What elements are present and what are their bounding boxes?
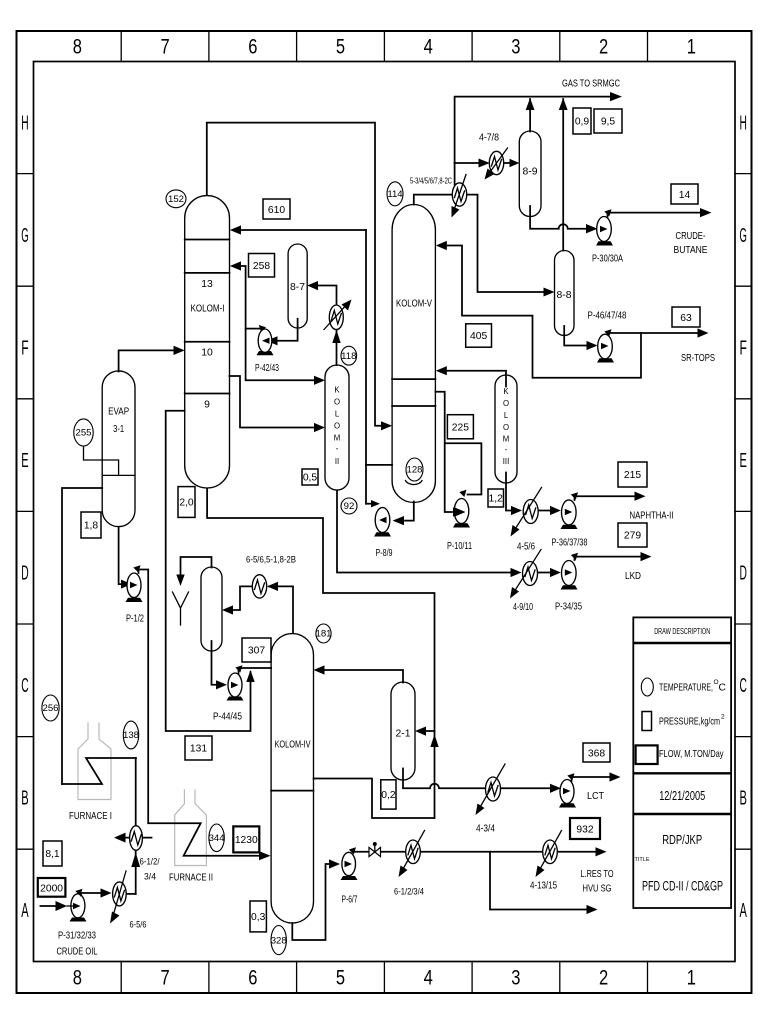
svg-text:LCT: LCT [587,791,605,802]
svg-text:C: C [21,674,28,697]
svg-text:F: F [21,337,28,360]
wire P-8/9 top connection [366,503,374,505]
svg-text:PFD CD-II / CD&GP: PFD CD-II / CD&GP [642,879,723,894]
wire gas header GAS TO SRMGC [455,97,615,163]
wire EVAP feed line to FURNACE I [62,488,102,784]
flow 63 [672,307,700,327]
exchanger 4-3/4 [476,764,506,835]
svg-text:B: B [21,787,28,810]
svg-text:4-5/6: 4-5/6 [517,542,535,553]
svg-text:9: 9 [204,400,210,411]
svg-text:3: 3 [511,36,520,59]
flow 225 [447,415,473,439]
wire P-30/30A discharge to CRUDE-BUTANE [608,213,706,218]
svg-text:9,5: 9,5 [601,117,616,128]
exchanger 6-5/6 [110,871,147,931]
svg-text:258: 258 [253,261,270,272]
svg-text:P-31/32/33: P-31/32/33 [58,931,96,942]
svg-text:P-34/35: P-34/35 [555,602,582,613]
flow 307 [242,638,271,662]
pump P-1/2 [126,573,145,625]
wire KOLOM-I side draw (9) to P-44/45 junction [166,411,251,731]
temp 181 [315,624,331,643]
svg-text:PRESSURE,kg/cm: PRESSURE,kg/cm [659,717,720,728]
svg-text:C: C [719,683,726,694]
svg-text:H: H [740,112,747,135]
svg-text:4: 4 [424,967,433,990]
svg-text:7: 7 [161,36,170,59]
svg-text:-: - [505,445,508,454]
grid letters right [740,112,748,923]
pump P-30/30A [592,217,623,265]
svg-text:HVU SG: HVU SG [583,884,612,895]
svg-text:7: 7 [161,967,170,990]
wire P-42/43 riser to KOLOM-II top feed [246,266,317,380]
pump P-10/11 [447,499,472,553]
grid numbers top [73,36,696,59]
svg-text:8,1: 8,1 [45,849,60,860]
svg-text:131: 131 [190,744,207,755]
flow 2000 [38,878,66,897]
svg-text:A: A [21,899,29,922]
wire KOLOM-IV bottoms to P-6/7 [292,864,331,940]
svg-text:O: O [334,422,340,431]
svg-text:181: 181 [315,629,331,640]
exchanger 4-5/6 [511,488,542,553]
flow 9,5 [594,109,622,133]
svg-text:63: 63 [680,313,692,324]
svg-text:2-1: 2-1 [395,729,410,740]
wire P-10/11 discharge loop [445,443,482,494]
wire KOLOM-V side takeoff to P-10/11 [435,392,452,512]
temp 128 [406,458,423,481]
wire P-1/2 discharge to FURNACE II [139,570,263,856]
svg-text:P-1/2: P-1/2 [126,614,144,625]
svg-text:6: 6 [248,967,257,990]
svg-text:K: K [334,386,340,395]
legend pressure symbol [642,712,652,731]
wire 8-8 overhead riser [562,99,564,251]
exchanger 6-1/2-3/4 (near furnace I) [114,826,160,894]
svg-text:0,5: 0,5 [303,473,318,484]
flare Y symbol [173,592,189,625]
svg-text:4: 4 [424,36,433,59]
wire 2-1 overhead to KOLOM-IV [321,670,403,683]
svg-text:III: III [503,457,510,466]
furnace FURNACE I outline [78,723,111,800]
svg-text:H: H [21,112,28,135]
wire P-36/37/38 discharge NAPHTHA-II [575,496,640,500]
wire drum bottoms to P-44/45 [212,641,219,685]
wire branch into KOLOM-V shell at 465 [366,464,392,466]
wire reflux from SR-TOPS line back to KOLOM-V [443,246,641,378]
svg-text:10: 10 [201,348,213,359]
wire KOLOM-V overhead through 5-3/4/5/6/7,8-2C [414,195,453,205]
svg-text:4-3/4: 4-3/4 [476,824,495,835]
temp 328 [271,926,287,955]
svg-text:KOLOM-V: KOLOM-V [396,299,432,310]
svg-text:P-46/47/48: P-46/47/48 [588,311,627,322]
svg-text:B: B [740,787,747,810]
wire KOLOM-III overhead to KOLOM-V [443,371,506,387]
svg-text:3: 3 [511,967,520,990]
drum (flash drum near P-44/45) [201,567,222,651]
svg-text:6-5/6,5-1,8-2B: 6-5/6,5-1,8-2B [246,555,296,566]
svg-text:610: 610 [268,205,285,216]
wire EVAP bottoms to P-1/2 [119,527,125,584]
pressure 0,5 [302,469,318,485]
svg-text:D: D [21,562,28,585]
svg-text:TEMPERATURE,: TEMPERATURE, [659,683,713,694]
wire 8-7 bottoms to P-42/43 [273,319,298,341]
svg-text:EVAP: EVAP [108,407,129,418]
wire 2-1 feed branch [421,730,435,732]
pressure 0,2 [381,780,396,809]
svg-text:2,0: 2,0 [179,498,194,509]
svg-text:307: 307 [248,646,265,657]
svg-text:KOLOM-IV: KOLOM-IV [275,740,311,751]
svg-text:SR-TOPS: SR-TOPS [681,353,715,364]
temp 255 [74,419,93,446]
svg-text:8-7: 8-7 [290,282,305,293]
column KOLOM-IV [271,634,313,923]
svg-text:G: G [740,224,747,247]
svg-text:M: M [503,435,510,444]
wire KOLOM-IV side takeoff 0,2 loop [314,779,435,819]
svg-text:4-13/15: 4-13/15 [530,881,557,892]
svg-text:8-8: 8-8 [556,290,571,301]
svg-text:1230: 1230 [235,835,258,846]
svg-text:6-5/6: 6-5/6 [130,920,147,931]
svg-text:P-30/30A: P-30/30A [592,254,623,265]
svg-text:FURNACE II: FURNACE II [169,873,213,884]
temp 118 [341,346,357,365]
svg-text:E: E [21,449,28,472]
svg-text:0,9: 0,9 [575,117,590,128]
svg-text:1: 1 [687,967,696,990]
svg-text:114: 114 [387,189,403,200]
svg-text:L.RES TO: L.RES TO [581,869,614,880]
svg-text:1,8: 1,8 [84,521,99,532]
exchanger 5-3/4/5/6/7,8-2C [410,175,467,218]
grid numbers bottom [73,967,696,990]
svg-text:932: 932 [576,825,593,836]
svg-text:DRAW DESCRIPTION: DRAW DESCRIPTION [654,626,710,636]
flow 1230 [233,826,259,852]
svg-text:O: O [334,398,340,407]
flow 258 [249,254,275,278]
wire HX to drum [228,586,252,610]
svg-text:3/4: 3/4 [144,872,157,883]
pump P-44/45 [213,673,244,723]
grid column dividers bottom [121,962,647,994]
svg-text:L: L [504,411,509,420]
temp 92 [341,498,357,514]
svg-text:K: K [503,387,509,396]
svg-text:6-1/2/: 6-1/2/ [140,857,160,868]
pressure 0,9 top [573,108,591,134]
legend temperature symbol [641,678,653,696]
temp 256 [42,695,59,721]
svg-text:8: 8 [73,967,82,990]
wire KOLOM-V bottoms to P-8/9 [405,502,414,521]
svg-text:344: 344 [209,833,226,844]
svg-text:8-9: 8-9 [522,167,537,178]
svg-text:92: 92 [344,501,355,512]
title block [633,617,731,908]
svg-text:FURNACE I: FURNACE I [69,811,112,822]
pump LCT [559,780,605,808]
furnace I coil [62,758,136,784]
wire 8-9 bottoms to P-30/30A (with jump) [530,206,589,229]
pump P-8/9 [374,508,393,560]
svg-text:NAPHTHA-II: NAPHTHA-II [630,511,674,522]
flow 932 [570,818,600,839]
wire KOLOM-II bottoms to LKD run [337,491,511,573]
vessel 8-8 [555,251,575,336]
svg-text:GAS TO SRMGC: GAS TO SRMGC [562,79,620,90]
temp 138 [123,721,139,749]
pump P-42/43 [255,329,279,374]
svg-text:128: 128 [406,465,422,476]
svg-text:6-1/2/3/4: 6-1/2/3/4 [394,887,425,898]
vessel 2-1 [391,682,415,780]
svg-text:4-9/10: 4-9/10 [513,602,533,613]
svg-text:L: L [335,410,340,419]
pump P-46/47/48 [588,311,627,363]
flow 215 [618,462,647,487]
pump P-34/35 [555,561,582,613]
svg-text:5: 5 [336,967,345,990]
wire branch to second L.RES arrow [490,852,590,910]
svg-text:F: F [740,337,747,360]
grid letters left [21,112,29,923]
wire riser P-8/9 to 610 line [365,230,367,504]
svg-text:2: 2 [721,714,725,721]
svg-text:E: E [740,449,747,472]
svg-text:6: 6 [248,36,257,59]
wire KOLOM-I bottoms to 2-1 [207,489,434,819]
svg-text:152: 152 [168,194,184,205]
wire 255 stem into EVAP [84,446,119,475]
vessel EVAP 3-1 [102,371,135,527]
svg-text:14: 14 [679,190,691,201]
svg-text:5: 5 [336,36,345,59]
flow 405 [466,324,492,347]
vessel 8-9 [519,131,541,217]
svg-text:8: 8 [73,36,82,59]
wire P-42/43 discharge [246,328,260,330]
svg-text:P-44/45: P-44/45 [213,712,242,723]
exchanger 4-7/8 [479,133,508,180]
svg-text:P-6/7: P-6/7 [342,895,358,906]
svg-text:M: M [334,434,341,443]
grid row dividers right [735,174,752,850]
svg-text:1,2: 1,2 [489,494,504,505]
wire KOLOM-I side draw to KOLOM-II [230,376,318,428]
svg-text:405: 405 [470,331,487,342]
grid column dividers top [121,31,647,62]
svg-text:II: II [335,457,339,466]
svg-text:2000: 2000 [40,884,63,895]
svg-text:279: 279 [624,531,641,542]
wire 8-9 overhead riser [529,99,531,132]
svg-text:P-8/9: P-8/9 [376,548,393,559]
temp 152 [166,190,186,208]
pump P-31/32/33 [40,888,111,957]
svg-text:256: 256 [42,703,58,714]
svg-text:3-1: 3-1 [113,424,124,435]
svg-text:O: O [503,399,509,408]
wire KOLOM-IV top to 6-5/6,5-1,8-2B HX [269,586,293,633]
wire 118-HX bottom to KOLOM-II dome [336,331,338,365]
wire LCT pump discharge [572,777,615,781]
exchanger above KOLOM-II (118) [324,300,352,330]
flow 14 [671,184,698,204]
svg-text:BUTANE: BUTANE [674,245,708,256]
svg-text:P-10/11: P-10/11 [447,541,472,552]
flow 131 [185,736,212,760]
wire EVAP overhead to KOLOM-I [119,350,177,371]
wire feed to 4-7/8 [455,162,479,164]
legend flow symbol [636,745,658,764]
exchanger 6-5/6,5-1,8-2B [246,555,296,599]
wire FURNACE I outlet down to 6-1/2-3/4 HX [135,758,137,826]
wire drum overhead to flare [181,557,212,580]
svg-text:KOLOM-I: KOLOM-I [191,304,225,315]
svg-text:4-7/8: 4-7/8 [479,133,499,144]
pressure 1,2 [488,489,504,507]
svg-text:RDP/JKP: RDP/JKP [662,832,702,847]
svg-text:O: O [503,423,509,432]
column KOLOM-III (vertical label) [495,375,517,483]
wire 258 return into KOLOM-I [238,265,246,267]
svg-text:12/21/2005: 12/21/2005 [659,788,705,803]
svg-text:368: 368 [588,749,605,760]
valve on P-6/7 discharge [369,842,381,857]
svg-text:LKD: LKD [625,571,641,582]
svg-text:P-42/43: P-42/43 [255,363,279,374]
svg-text:118: 118 [341,351,356,362]
pressure 8,1 [43,841,62,866]
svg-text:215: 215 [624,470,641,481]
flow 610 [263,199,290,219]
wire P-46/47/48 discharge SR-TOPS [608,333,702,337]
svg-text:1: 1 [687,36,696,59]
svg-text:-: - [336,444,339,453]
svg-text:328: 328 [271,935,287,946]
pressure 1,8 [81,512,101,538]
svg-text:225: 225 [452,422,469,433]
temp 114 [387,182,403,206]
svg-text:138: 138 [123,730,139,741]
wire KOLOM-I overhead to KOLOM-V [207,123,385,426]
svg-text:FLOW, M.TON/Day: FLOW, M.TON/Day [659,749,724,760]
vessel 8-7 [288,244,307,328]
svg-text:5-3/4/5/6/7,8-2C: 5-3/4/5/6/7,8-2C [410,177,452,186]
wire P-44/45 discharge to KOLOM-IV [240,667,271,669]
svg-text:D: D [740,562,747,585]
wire 4-7/8 to 8-9 [504,162,512,164]
column KOLOM-I [185,196,230,488]
svg-text:P-36/37/38: P-36/37/38 [552,538,588,549]
svg-text:CRUDE OIL: CRUDE OIL [57,947,98,958]
pump P-36/37/38 [552,500,588,549]
svg-text:0,2: 0,2 [381,790,396,801]
column KOLOM-II (vertical label) [325,365,349,490]
exchanger 4-9/10 [510,550,541,614]
wire 610 return into KOLOM-I [238,229,366,231]
pressure 2,0 [178,487,195,518]
flow 368 [583,743,610,762]
svg-text:0,3: 0,3 [251,912,266,923]
wire KOLOM-III bottoms to NAPHTHA run [506,473,511,511]
svg-text:TITLE: TITLE [635,857,650,863]
svg-text:G: G [21,224,28,247]
furnace FURNACE II outline [175,790,207,866]
exchanger 6-1/2/3/4 (bottom run) [394,831,425,898]
temp 344 [209,824,226,852]
svg-text:A: A [740,899,748,922]
svg-text:C: C [740,674,747,697]
svg-text:13: 13 [201,279,213,290]
grid row dividers left [17,174,34,850]
column KOLOM-V [392,205,435,503]
svg-text:CRUDE-: CRUDE- [676,231,706,242]
wire P-34/35 discharge LKD [575,557,644,560]
svg-text:2: 2 [599,36,608,59]
pump P-6/7 [341,852,358,905]
exchanger 4-13/15 [530,831,562,892]
wire 8-7 feed from 118-HX line [315,286,337,307]
wire P-6/7 discharge main run [353,851,599,853]
svg-text:2: 2 [599,967,608,990]
flow 279 [618,523,647,547]
wire 8-8 bottoms to P-46/47/48 [564,326,587,346]
pressure 0,3 [250,901,266,932]
wire 2-1 bottoms to LCT (with jump) [403,769,486,789]
svg-text:255: 255 [75,428,91,439]
